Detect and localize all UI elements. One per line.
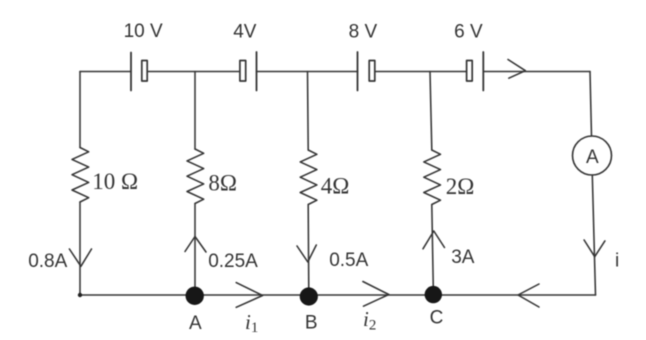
svg-text:4V: 4V	[233, 22, 257, 43]
svg-text:0.5A: 0.5A	[329, 250, 368, 271]
svg-text:8 V: 8 V	[349, 22, 378, 43]
svg-text:8Ω: 8Ω	[208, 171, 237, 196]
svg-text:10 V: 10 V	[124, 21, 163, 42]
svg-text:A: A	[189, 313, 202, 334]
svg-text:6 V: 6 V	[454, 22, 483, 43]
svg-text:B: B	[305, 313, 318, 334]
svg-text:4Ω: 4Ω	[321, 173, 350, 198]
svg-text:A: A	[586, 147, 599, 168]
svg-text:i2: i2	[363, 307, 376, 334]
svg-text:3A: 3A	[451, 247, 475, 268]
svg-text:10 Ω: 10 Ω	[92, 169, 138, 194]
svg-text:2Ω: 2Ω	[446, 174, 475, 199]
svg-text:0.25A: 0.25A	[208, 251, 258, 272]
svg-text:0.8A: 0.8A	[28, 251, 67, 272]
svg-text:i: i	[615, 251, 619, 272]
svg-text:i1: i1	[245, 310, 258, 336]
svg-text:C: C	[430, 308, 444, 329]
